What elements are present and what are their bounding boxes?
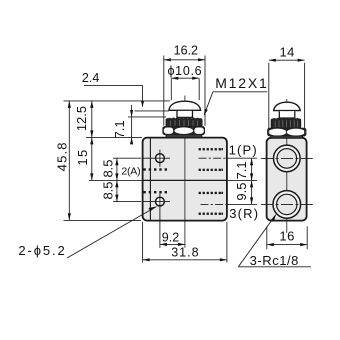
svg-text:16.2: 16.2: [174, 44, 198, 58]
label M12x1 with leader: [204, 75, 269, 116]
dimension 31.8: [143, 222, 227, 263]
port3 centerline (side): [261, 203, 313, 205]
svg-text:ϕ10.6: ϕ10.6: [167, 64, 202, 78]
svg-text:12.5: 12.5: [74, 106, 89, 131]
dimension 14: [269, 44, 305, 135]
label 2-phi5.2 with leader: [18, 207, 156, 259]
svg-text:8.5: 8.5: [101, 159, 116, 177]
svg-text:45.8: 45.8: [54, 141, 69, 171]
svg-text:7.1: 7.1: [112, 120, 127, 138]
label 2(A): [121, 165, 140, 177]
dimension 8.5 upper: [101, 158, 141, 180]
dimension 2.4 leader: [82, 71, 144, 107]
port 1 circle (side): [274, 145, 301, 172]
button stem (front): [177, 111, 193, 118]
dimension 16: [267, 226, 307, 249]
button top extension line: [64, 100, 171, 102]
dimension 15: [75, 137, 93, 180]
dimension phi 10.6: [167, 64, 202, 100]
dimension 7.1 left: [112, 105, 133, 144]
port 3 circle (side): [273, 191, 301, 219]
body inner joint line: [149, 138, 151, 220]
hex nut (front): [163, 127, 205, 135]
dimension 9.5: [234, 180, 253, 204]
svg-text:2.4: 2.4: [82, 71, 99, 85]
push button dome (side): [274, 102, 301, 110]
body top extension line: [86, 136, 142, 138]
svg-text:16: 16: [279, 229, 294, 244]
thread dashes right row3: [199, 192, 223, 194]
svg-text:M12X1: M12X1: [215, 75, 268, 91]
body split line: [143, 179, 227, 181]
thread dashes right row1: [199, 148, 223, 150]
svg-text:2-ϕ5.2: 2-ϕ5.2: [18, 243, 66, 258]
hex nut (side): [268, 128, 306, 136]
label 3-Rc1/8 with leader: [238, 215, 311, 268]
thread dashes right row4: [199, 213, 223, 215]
svg-text:14: 14: [279, 44, 294, 59]
side view body: [267, 138, 307, 221]
svg-text:8.5: 8.5: [101, 181, 116, 199]
dimension 7.1 right: [234, 158, 253, 180]
push button dome (front): [169, 101, 201, 110]
svg-text:1(P): 1(P): [229, 143, 258, 158]
port 3 centerline (dash-dot): [201, 203, 227, 205]
washer under nut (side): [271, 136, 303, 138]
dimension 16.2: [164, 44, 205, 126]
svg-text:3-Rc1/8: 3-Rc1/8: [250, 253, 299, 268]
dome bottom extension line: [135, 110, 170, 112]
split extension line right: [227, 179, 257, 181]
washer under nut (front): [166, 134, 202, 137]
front view valve body: [143, 138, 227, 221]
valve center line: [184, 96, 186, 248]
mounting hole top: [142, 150, 171, 167]
port 2(A) thread dashes left top: [143, 168, 167, 170]
knurled lock ring (front, black): [166, 117, 202, 127]
svg-text:15: 15: [75, 148, 90, 165]
dimension 9.2: [160, 231, 185, 246]
button stem (side): [279, 111, 295, 118]
dimension 12.5: [74, 101, 93, 137]
knurled lock ring (side, black): [271, 118, 301, 129]
port1 extension line right: [227, 157, 257, 159]
mounting hole bottom: [142, 193, 171, 248]
nut top extension line: [128, 116, 166, 118]
svg-text:9.5: 9.5: [234, 183, 249, 201]
svg-text:2(A): 2(A): [121, 165, 140, 177]
dimension 45.8: [54, 101, 71, 220]
port 1 centerline (dash-dot): [199, 157, 227, 159]
label 3(R): [229, 206, 259, 221]
port3 extension line right: [227, 203, 257, 205]
label 1(P): [229, 143, 258, 158]
svg-text:3(R): 3(R): [229, 206, 259, 221]
dimension 8.5 lower: [101, 180, 141, 201]
split extension line left: [89, 179, 142, 181]
svg-text:7.1: 7.1: [234, 161, 249, 179]
thread dashes left bottom: [143, 191, 167, 193]
thread dashes right row2: [199, 169, 223, 171]
port1 centerline (side): [261, 157, 313, 159]
svg-text:9.2: 9.2: [162, 231, 179, 245]
svg-text:31.8: 31.8: [171, 245, 199, 259]
body bottom extension line: [64, 219, 142, 221]
side center line: [286, 99, 288, 233]
